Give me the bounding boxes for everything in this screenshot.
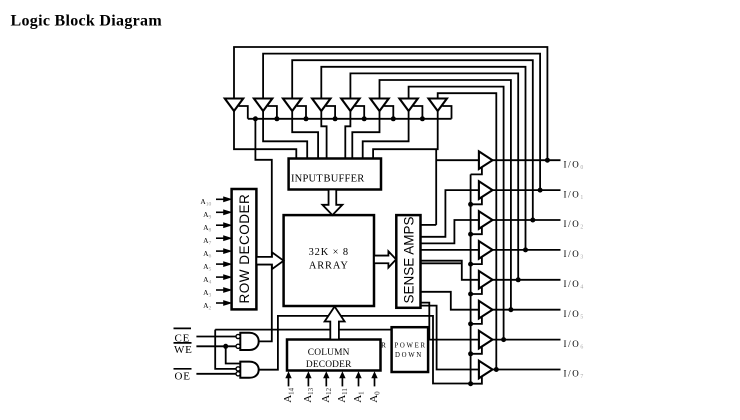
svg-text:COLUMN: COLUMN <box>308 348 350 358</box>
svg-text:DECODER: DECODER <box>306 360 352 370</box>
svg-text:SENSE AMPS: SENSE AMPS <box>401 216 416 303</box>
svg-text:ARRAY: ARRAY <box>309 260 349 271</box>
svg-text:POWER: POWER <box>394 342 426 349</box>
svg-text:ROW DECODER: ROW DECODER <box>237 194 252 304</box>
svg-text:R: R <box>381 341 386 350</box>
svg-text:Logic Block Diagram: Logic Block Diagram <box>11 13 163 30</box>
svg-text:32K × 8: 32K × 8 <box>309 247 349 258</box>
svg-text:WE: WE <box>174 344 193 356</box>
svg-text:DOWN: DOWN <box>395 352 423 359</box>
svg-text:INPUT BUFFER: INPUT BUFFER <box>291 173 364 184</box>
svg-text:OE: OE <box>175 370 191 382</box>
